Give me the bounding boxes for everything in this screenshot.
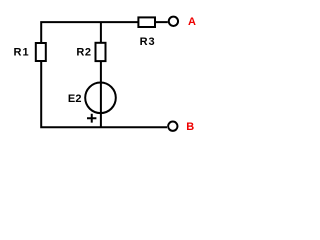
svg-text:A: A: [188, 16, 197, 28]
svg-text:B: B: [186, 121, 195, 133]
svg-text:R2: R2: [76, 47, 91, 59]
svg-text:E2: E2: [68, 93, 82, 105]
svg-text:R3: R3: [140, 36, 156, 48]
svg-text:R1: R1: [14, 47, 30, 59]
